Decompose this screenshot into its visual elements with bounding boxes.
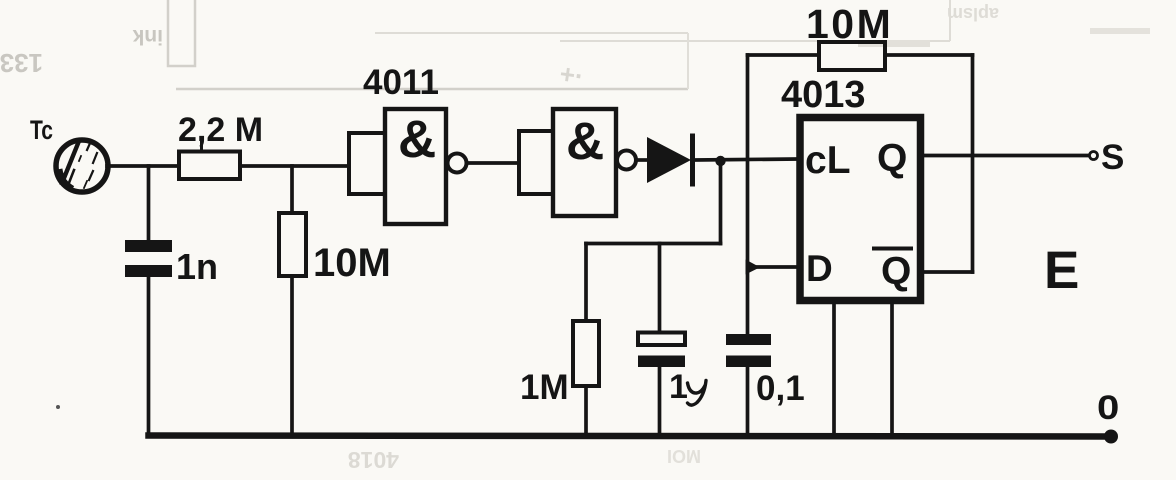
- svg-text:&: &: [398, 110, 436, 169]
- svg-text:0: 0: [1097, 388, 1119, 426]
- svg-text:ink: ink: [132, 25, 163, 48]
- svg-text:E: E: [1044, 241, 1079, 300]
- svg-text:Q: Q: [877, 137, 907, 180]
- svg-text:+·: +·: [558, 58, 586, 91]
- svg-text:0,1: 0,1: [756, 369, 805, 408]
- svg-text:1: 1: [669, 368, 688, 406]
- svg-text:aplsm: aplsm: [947, 4, 999, 24]
- svg-text:S: S: [1101, 138, 1124, 177]
- svg-text:10M: 10M: [313, 241, 391, 285]
- svg-text:Q: Q: [881, 250, 911, 293]
- svg-text:4011: 4011: [363, 63, 439, 102]
- svg-text:Tc: Tc: [30, 115, 53, 145]
- svg-text:10M: 10M: [806, 1, 893, 47]
- svg-text:2,2 M: 2,2 M: [178, 111, 263, 149]
- svg-text:D: D: [806, 248, 833, 289]
- svg-text:MOI: MOI: [667, 446, 701, 466]
- svg-text:cL: cL: [805, 139, 851, 182]
- svg-text:4018: 4018: [348, 447, 399, 473]
- svg-text:&: &: [566, 112, 604, 171]
- svg-text:4013: 4013: [781, 74, 866, 116]
- svg-text:133: 133: [0, 48, 43, 78]
- svg-text:1n: 1n: [176, 246, 218, 287]
- svg-text:1M: 1M: [520, 368, 569, 407]
